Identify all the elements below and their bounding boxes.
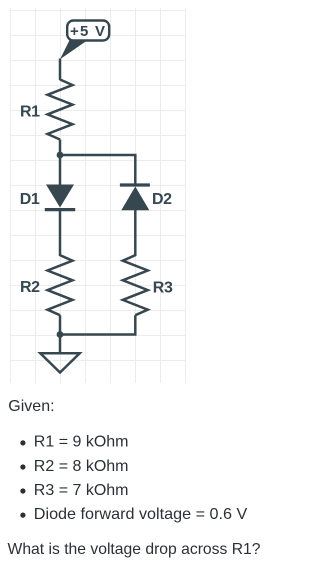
wire: node B to ground xyxy=(59,335,62,354)
diode D1 xyxy=(45,185,75,210)
svg-text:D1: D1 xyxy=(20,191,40,208)
svg-text:What is the voltage drop acros: What is the voltage drop across R1? xyxy=(8,541,261,558)
svg-text:R3: R3 xyxy=(153,279,173,296)
svg-text:Given:: Given: xyxy=(8,398,54,415)
bullet 1 xyxy=(20,440,25,445)
wire: R2 to node B xyxy=(59,315,62,334)
wire: R3 to node B xyxy=(60,315,135,334)
svg-text:R2 = 8 kOhm: R2 = 8 kOhm xyxy=(34,458,129,475)
bullet 2 xyxy=(20,464,25,469)
wire: R1 to node A xyxy=(59,140,62,157)
svg-text:D2: D2 xyxy=(152,191,172,208)
svg-text:R1 = 9 kOhm: R1 = 9 kOhm xyxy=(34,434,129,451)
svg-text:R1: R1 xyxy=(20,104,40,121)
power flag +5V xyxy=(60,21,109,60)
node A (junction dot) xyxy=(57,152,64,159)
wire: +5V to R1 xyxy=(59,59,62,81)
bullet 3 xyxy=(20,488,25,493)
bullet 4 xyxy=(20,513,25,518)
resistor R1 xyxy=(48,80,73,140)
wire: D1 to R2 xyxy=(59,210,62,257)
svg-text:R2: R2 xyxy=(20,279,40,296)
svg-text:+5 V: +5 V xyxy=(70,23,105,40)
svg-text:R3 = 7 kOhm: R3 = 7 kOhm xyxy=(34,482,129,499)
resistor R2 xyxy=(48,255,73,315)
resistor R3 xyxy=(123,255,148,315)
wire: node A to D1 xyxy=(59,155,62,185)
svg-text:Diode forward voltage = 0.6 V: Diode forward voltage = 0.6 V xyxy=(34,506,248,523)
ground xyxy=(40,353,79,372)
diode D2 xyxy=(120,185,150,210)
wire: D2 to R3 xyxy=(134,210,137,256)
wire: node A to D2 branch xyxy=(60,155,135,184)
node B (junction dot) xyxy=(57,331,64,338)
